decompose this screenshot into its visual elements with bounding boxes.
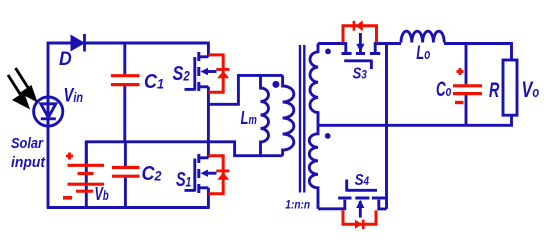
transistor S3 [342,33,381,69]
body diode of S3 [343,26,377,43]
svg-text:Vin: Vin [64,86,84,107]
capacitor C1 [111,76,140,85]
wire bottom rail [47,206,210,209]
transistor S2 [185,52,217,91]
transistor S1 [185,154,217,193]
wire C2 branch [124,142,127,166]
wire Co bottom [465,95,468,125]
body diode of S1 [208,156,223,194]
transformer primary winding [283,75,294,155]
wire battery branch [85,142,88,208]
battery Vb [63,153,104,198]
solar arrows [8,68,35,107]
body diode of S2 [208,55,223,92]
wire S3 source to Lo node [375,44,401,53]
wire rectified node vertical [385,44,388,209]
capacitor Co [453,68,482,103]
wire switch node vertical [207,87,210,158]
node dot secondary top [325,49,331,55]
body diode of S4 [343,210,376,224]
transistor S4 [338,180,385,218]
resistor R [503,60,517,115]
solar cell Vin [34,97,63,126]
inductor Lm [261,75,269,155]
wire mid rail [86,142,282,165]
svg-text:input: input [11,154,46,171]
wire C1 branch [123,43,126,74]
wire switch node to Lm [208,75,282,104]
wire Co top [465,44,468,85]
transformer secondary top winding [310,44,318,126]
node dot secondary bottom [325,133,331,139]
wire Lo to R [444,44,512,61]
capacitor C2 [112,168,140,177]
transformer secondary bottom winding [309,125,318,209]
svg-text:Solar: Solar [11,135,44,152]
svg-text:Vb: Vb [95,183,109,204]
wire secondary top to S3 [318,44,346,53]
wire center tap / output bottom rail [318,115,512,125]
inductor Lo [401,31,444,42]
svg-text:D: D [59,49,72,70]
wire top rail [48,43,208,208]
transformer core [300,45,304,193]
diode D [71,34,86,52]
wire secondary bottom to S4 [318,200,345,209]
svg-text:1:n:n: 1:n:n [285,200,310,212]
wire S4 right terminal [379,200,387,209]
svg-text:R: R [489,79,500,102]
svg-text:Lo: Lo [416,43,430,64]
node dot primary [272,81,279,88]
